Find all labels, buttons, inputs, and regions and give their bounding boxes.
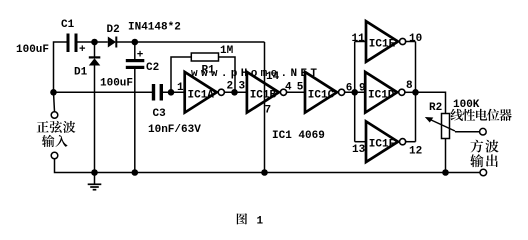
inverter gate IC1A — [185, 72, 225, 113]
wire IC1F input — [355, 141, 366, 143]
node D (IC1A out) — [231, 89, 238, 96]
svg-text:100uF: 100uF — [100, 78, 133, 90]
inverter gate IC1B — [247, 72, 287, 113]
svg-text:D2: D2 — [107, 24, 120, 36]
node F (outputs join) — [412, 89, 419, 96]
label square-wave output line1 — [471, 140, 499, 153]
ground — [88, 173, 102, 190]
capacitor C1 — [67, 34, 78, 53]
svg-text:C1: C1 — [61, 19, 75, 31]
wire R2 bottom — [445, 139, 447, 173]
svg-text:+: + — [79, 44, 86, 56]
wire input junction to terminal — [54, 92, 55, 111]
node A (C1/D2/D1) — [91, 39, 98, 46]
inverter gate IC1F — [366, 121, 406, 162]
wire signal row to C3 — [54, 91, 153, 93]
node C (C3/R1) — [168, 89, 175, 96]
svg-text:D1: D1 — [74, 67, 88, 79]
wire IC1A out to IC1B in — [224, 91, 247, 93]
svg-text:IC1E: IC1E — [369, 39, 396, 51]
svg-text:14: 14 — [266, 71, 280, 83]
svg-text:100uF: 100uF — [16, 44, 49, 56]
svg-text:7: 7 — [265, 105, 272, 117]
svg-text:C2: C2 — [146, 62, 159, 74]
wire R1 feedback right — [219, 57, 236, 92]
svg-text:IC1A: IC1A — [188, 90, 215, 102]
svg-text:11: 11 — [352, 33, 366, 45]
terminal output bottom — [480, 169, 487, 176]
svg-text:8: 8 — [406, 80, 413, 92]
svg-text:1: 1 — [177, 82, 184, 94]
svg-text:IC1F: IC1F — [369, 139, 395, 151]
wire IC1C out to IC1D in — [344, 91, 365, 93]
svg-text:13: 13 — [352, 144, 366, 156]
resistor R1 — [191, 53, 218, 61]
wire parallel input column — [354, 42, 356, 142]
svg-text:R2: R2 — [429, 102, 442, 114]
svg-text:1M: 1M — [220, 45, 234, 57]
capacitor C2 — [126, 42, 145, 173]
svg-text:IC1C: IC1C — [308, 90, 335, 102]
label square-wave output line2 — [470, 154, 498, 167]
node E (IC1C out) — [351, 89, 358, 96]
svg-text:12: 12 — [409, 146, 422, 158]
potentiometer wiper arrow — [425, 117, 455, 131]
wire IC1E input — [355, 41, 366, 43]
svg-text:10: 10 — [409, 33, 422, 45]
wire IC1F output — [405, 141, 416, 143]
wire C1 to node A — [78, 41, 108, 43]
diode D1 — [89, 42, 101, 173]
wire wiper to output terminal — [455, 131, 480, 133]
wire input top column — [54, 42, 68, 92]
wire parallel output column — [415, 42, 417, 142]
terminal input top — [51, 112, 58, 119]
node B (D2/C2) — [132, 39, 139, 46]
wire D2 to IC1B pin 14 — [117, 41, 265, 43]
svg-text:100K: 100K — [453, 99, 480, 111]
terminal wiper output — [480, 128, 487, 135]
svg-text:IN4148*2: IN4148*2 — [128, 22, 181, 34]
label sine-wave input line1 — [37, 121, 76, 133]
terminal input bottom — [51, 152, 58, 159]
svg-text:IC1D: IC1D — [368, 90, 395, 102]
capacitor C3 — [152, 84, 163, 101]
inverter gate IC1E — [366, 21, 406, 62]
wire ground rail — [55, 159, 481, 173]
label sine-wave input line2 — [42, 135, 68, 147]
node I (pin7/gnd) — [261, 169, 268, 176]
node J (R2/gnd) — [442, 169, 449, 176]
wire IC1E output — [405, 41, 416, 43]
svg-text:IC1B: IC1B — [250, 90, 277, 102]
svg-text:5: 5 — [297, 82, 304, 94]
wire C3 to IC1A input — [163, 91, 185, 93]
svg-text:1: 1 — [257, 216, 264, 228]
wire IC1D out to node F — [405, 91, 416, 93]
inverter gate IC1D — [365, 72, 405, 113]
svg-text:+: + — [137, 50, 144, 62]
node G (D1/gnd) — [91, 169, 98, 176]
wire IC1B out to IC1C in — [286, 91, 305, 93]
svg-text:R1: R1 — [202, 65, 216, 77]
label 100K linear potentiometer — [451, 109, 512, 121]
node H (C2/gnd) — [132, 169, 139, 176]
label figure 1 caption — [237, 213, 247, 224]
svg-text:IC1 4069: IC1 4069 — [272, 130, 325, 142]
node input junction — [50, 89, 57, 96]
resistor R2 (potentiometer body) — [442, 114, 450, 139]
svg-text:10nF/63V: 10nF/63V — [148, 124, 201, 136]
inverter gate IC1C — [305, 72, 345, 113]
svg-text:3: 3 — [239, 81, 246, 93]
wire R1 feedback left — [171, 57, 191, 92]
wire IC1B power pin 14/7 column — [264, 42, 266, 173]
wire node F to R2 top — [416, 92, 446, 113]
svg-text:C3: C3 — [153, 108, 167, 120]
diode D2 — [108, 37, 118, 48]
